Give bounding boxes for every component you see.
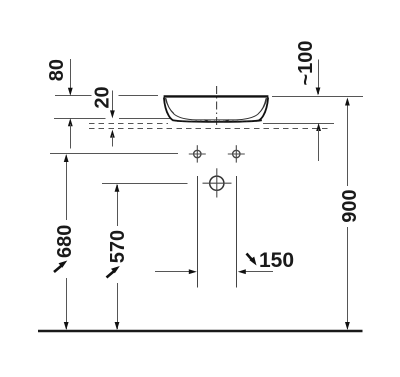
dimension 570 arrow down [115, 322, 120, 330]
dimension ~100 line [318, 60, 320, 95]
basin bottom stipple [177, 120, 257, 122]
svg-text:20: 20 [92, 86, 114, 108]
dimension 20 upper line [112, 91, 114, 117]
dimension 80 lower tail [70, 124, 72, 149]
svg-text:680: 680 [54, 225, 76, 258]
supply zone right vertical line [236, 176, 238, 288]
svg-text:570: 570 [107, 230, 129, 263]
dimension 80 upper line [70, 59, 72, 94]
faucet hole left circle [194, 150, 201, 157]
dimension 570 line upper [117, 185, 119, 226]
basin outer bottom [173, 120, 262, 122]
basin outer left wall [164, 98, 174, 121]
shelf line right of basin [263, 123, 334, 125]
extension line for 570 [102, 183, 188, 185]
dimension 570 line lower [117, 283, 119, 329]
arrow up to shelf right [316, 123, 321, 131]
dimension 900 line upper [347, 99, 349, 186]
dimension 20 lower tail [112, 135, 114, 147]
rim level line left segment 1 [55, 95, 92, 97]
dimension 20 arrow down [110, 110, 115, 118]
dimension 80 arrow down [68, 88, 73, 96]
dimension 150 arrow right [155, 271, 190, 273]
dimension 680 line upper [66, 156, 68, 221]
dimension 900 arrow down [345, 322, 350, 330]
basin inner wall line [166, 98, 266, 120]
floor line [38, 330, 363, 333]
countertop line left segment 1 [54, 118, 106, 120]
supply zone left vertical line [197, 176, 199, 288]
dimension 900 arrow up [345, 98, 350, 106]
label 680 slanted arrow [54, 264, 63, 272]
arrow up to shelf tail [318, 129, 320, 161]
label 150 slanted arrow [247, 254, 254, 262]
dimension 680 arrow up [64, 154, 69, 162]
basin inner secondary line left [165, 98, 174, 114]
basin inner secondary line right [259, 98, 267, 114]
rim level line left segment 2 [119, 95, 159, 97]
svg-text:~100: ~100 [295, 40, 317, 85]
rim level line right segment [272, 96, 363, 98]
drain circle [210, 176, 224, 190]
basin drain recess [205, 120, 230, 122]
svg-text:150: 150 [259, 249, 294, 272]
dimension 900 line lower [347, 227, 349, 329]
svg-text:80: 80 [46, 59, 68, 81]
dimension 20 arrow up [110, 130, 115, 138]
dimension 150 arrow left [245, 271, 273, 273]
extension line for 680 [50, 153, 178, 155]
hidden edge dashed line lower [89, 128, 330, 130]
dimension 680 arrow down [64, 322, 69, 330]
basin rim [164, 95, 269, 97]
svg-text:900: 900 [339, 189, 361, 222]
dimension 570 arrow up [115, 184, 120, 192]
dimension ~100 arrow down [316, 88, 321, 96]
basin outer right wall [259, 98, 269, 121]
countertop line left segment 2 [119, 118, 170, 120]
hidden edge dashed line upper left [89, 123, 168, 125]
basin centerline dash-dot [216, 86, 218, 128]
dimension 680 line lower [66, 278, 68, 329]
dimension 80 arrow up [68, 118, 73, 126]
label 570 slanted arrow [107, 270, 116, 278]
faucet hole right circle [233, 150, 240, 157]
